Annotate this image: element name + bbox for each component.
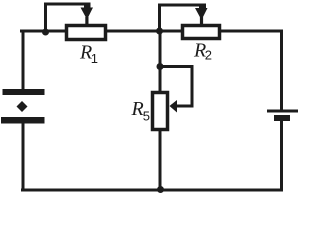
wire center vertical [159,31,162,190]
wiper arrow of R1 [81,3,94,24]
battery B1 plate top [3,89,45,95]
wire top horizontal [20,30,282,33]
resistor R2 [183,26,220,39]
battery B1 plate bottom [1,117,45,124]
battery B1 polarity diamond [17,101,28,112]
svg-text:2: 2 [205,48,212,63]
wire R1 wiper loop [46,4,90,31]
svg-text:5: 5 [143,109,150,124]
label R1 [79,42,98,67]
wire right vertical lower [280,117,283,191]
wire right vertical upper [280,30,283,112]
wire bottom horizontal [21,189,283,192]
svg-text:R: R [131,98,144,120]
wire left vertical lower [22,120,25,191]
node D junction dot bottom center [157,186,164,193]
resistor R1 [67,26,106,40]
wiper arrow of R5 [170,100,178,113]
wire R2 wiper loop [160,5,205,31]
battery B2 plate long [267,110,298,113]
battery B2 plate short [274,115,290,121]
node C junction dot R5 wiper [157,63,164,70]
label R5 [131,98,151,124]
wire R5 wiper loop [160,67,192,108]
wire left vertical upper [22,30,25,93]
resistor R5 [153,93,168,130]
svg-text:1: 1 [91,51,98,66]
node A junction dot R1 wiper [42,29,49,36]
label R2 [193,40,212,63]
node B junction dot top center [156,28,163,35]
wiper arrow of R2 [195,4,208,24]
